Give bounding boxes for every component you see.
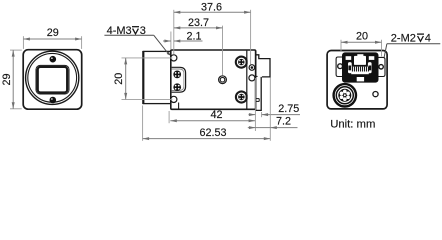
svg-text:4: 4: [425, 33, 431, 45]
dimension 37.6: [174, 2, 251, 65]
unit annotation: [330, 118, 375, 130]
front view camera body square: [23, 50, 81, 109]
svg-text:20: 20: [113, 73, 125, 85]
back view indicator LED hole: [373, 92, 378, 97]
svg-text:2-M2: 2-M2: [391, 33, 416, 45]
back view camera body square: [327, 51, 387, 109]
dimension 2.1: [163, 30, 203, 49]
side view front bottom M3 screw hole: [171, 96, 177, 102]
side view front top M3 screw hole: [171, 55, 177, 61]
back view right screw slot: [377, 57, 385, 76]
dimension 62.53: [143, 106, 271, 141]
side view rear face line: [255, 51, 257, 77]
side view rear bottom screw: [236, 92, 247, 103]
side view rear cap parting line: [246, 51, 248, 109]
front view sensor window outer outline: [36, 65, 69, 94]
svg-text:7.2: 7.2: [276, 115, 291, 127]
front view lens mount inner circle: [28, 53, 77, 102]
svg-text:2.75: 2.75: [278, 103, 299, 115]
svg-text:37.6: 37.6: [201, 2, 222, 14]
side view barrel step notch: [256, 99, 259, 102]
front view top retaining screw: [50, 56, 57, 63]
back view RJ45 ethernet connector: [343, 53, 379, 82]
svg-text:2.1: 2.1: [186, 30, 201, 42]
back view right M2 screw hole: [379, 65, 383, 69]
svg-text:20: 20: [356, 31, 368, 43]
side view center tripod hole: [219, 76, 227, 84]
side view RJ45 shell profile: [256, 55, 270, 77]
back view left screw slot: [336, 57, 343, 77]
dimension 42: [169, 109, 255, 123]
svg-text:29: 29: [47, 27, 59, 39]
side view capsule screw lower: [173, 83, 181, 91]
side view M2 screw from side: [249, 65, 255, 71]
label 2-M2 depth 4: [384, 33, 440, 57]
dimension 20 back: [341, 31, 382, 57]
svg-text:29: 29: [1, 73, 13, 85]
side view main body: [171, 50, 256, 109]
back view M8 power connector: [334, 84, 356, 106]
side view lens mount barrel: [143, 51, 171, 104]
side view rear top screw: [236, 57, 247, 68]
side view bottom screw pocket line: [178, 103, 180, 109]
dimension 20 side: [113, 58, 172, 100]
dimension 7.2: [248, 78, 298, 141]
side view indicator hole: [249, 75, 255, 81]
front view lens mount outer circle: [26, 51, 79, 104]
front view bottom retaining screw: [50, 97, 57, 104]
dimension 23.7: [174, 17, 223, 75]
svg-text:62.53: 62.53: [199, 127, 226, 139]
back view left M2 screw hole: [338, 64, 343, 69]
side view capsule screw upper: [173, 71, 181, 79]
svg-text:Unit: mm: Unit: mm: [330, 118, 375, 130]
dimension 2.75: [249, 78, 301, 131]
svg-text:23.7: 23.7: [188, 17, 209, 29]
dimension 29 height front: [1, 50, 22, 109]
side view M8 barrel profile: [256, 76, 261, 110]
side view mounting capsule outline: [172, 67, 186, 92]
svg-text:42: 42: [210, 109, 222, 121]
dimension 29 width front: [23, 27, 81, 49]
front view sensor window frame: [38, 67, 67, 93]
label 4-M3 depth 3: [104, 25, 170, 55]
